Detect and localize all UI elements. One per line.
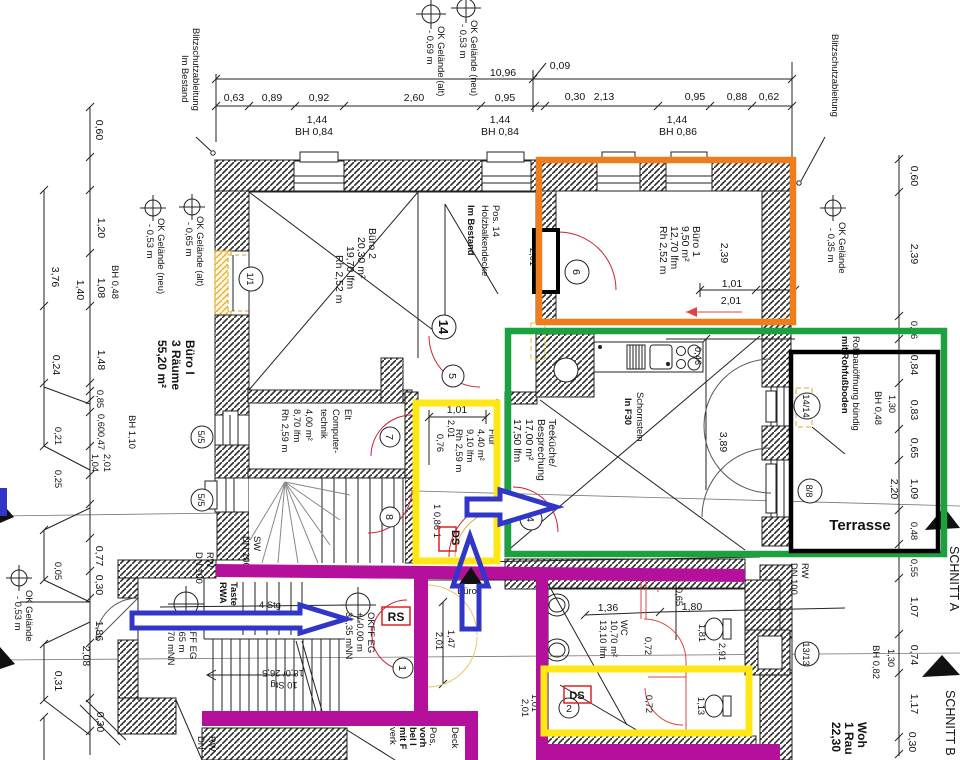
window left wall mid [215, 411, 249, 449]
section triangle right B [922, 655, 960, 677]
svg-text:0,48: 0,48 [909, 522, 920, 540]
DS red box rotated [439, 527, 461, 551]
svg-text:BH 1,10: BH 1,10 [127, 415, 138, 449]
door arc flur DS orange [455, 510, 500, 557]
svg-text:8,70 lfm: 8,70 lfm [292, 409, 303, 443]
svg-text:0,25: 0,25 [53, 470, 64, 488]
svg-text:0,62: 0,62 [759, 91, 780, 103]
blue arrow horizontal [132, 605, 346, 633]
door arc room8 [368, 490, 412, 533]
svg-text:technik: technik [319, 409, 330, 439]
leader blitz left [196, 137, 211, 151]
door dim line corridor [442, 602, 444, 684]
svg-text:2,01: 2,01 [102, 454, 113, 472]
svg-text:1,44: 1,44 [490, 114, 511, 126]
yellow window left wall [228, 255, 249, 311]
Buero2 diagonal 1 [249, 192, 433, 330]
svg-text:0,24: 0,24 [50, 355, 62, 376]
svg-text:8/8: 8/8 [804, 484, 815, 497]
circle 14 [432, 315, 456, 339]
svg-text:Deck: Deck [450, 727, 461, 749]
svg-text:Computer-: Computer- [331, 409, 342, 453]
svg-text:DN 100: DN 100 [241, 536, 252, 568]
OK symbol right [820, 195, 846, 221]
svg-text:0,31: 0,31 [52, 671, 64, 692]
svg-text:OKFF EG: OKFF EG [366, 612, 377, 653]
svg-text:2,39: 2,39 [718, 243, 730, 264]
inner wall line stairhall [417, 192, 419, 358]
svg-text:0,83: 0,83 [908, 400, 920, 421]
svg-text:BH 0,48: BH 0,48 [873, 391, 884, 425]
svg-text:Pos. 14: Pos. 14 [491, 205, 502, 237]
window W1 top wall [294, 152, 344, 191]
svg-text:Terrasse: Terrasse [829, 517, 890, 534]
magenta bottom bar [202, 711, 478, 726]
RS red box [382, 607, 410, 625]
svg-text:Blitzschutzableitung: Blitzschutzableitung [830, 34, 841, 117]
svg-text:1,07: 1,07 [908, 597, 920, 618]
WC sink 1 [545, 594, 569, 616]
wall stub chimney-west [505, 392, 537, 404]
yellow hatched window jamb left wall [215, 251, 231, 315]
circled 5/5 b [191, 489, 213, 511]
svg-text:In F30: In F30 [623, 398, 634, 425]
svg-text:2,60: 2,60 [404, 92, 425, 104]
dishwasher [627, 345, 645, 369]
window black buero1 [534, 230, 558, 292]
kitchen counter [594, 342, 703, 372]
svg-text:4 Stg: 4 Stg [259, 599, 281, 610]
red arrow buero1 [686, 307, 742, 317]
right exterior wall mid [762, 323, 791, 387]
svg-text:SCHNITT A: SCHNITT A [947, 546, 960, 612]
svg-text:OK Gelände (alt): OK Gelände (alt) [195, 216, 206, 286]
svg-text:14: 14 [436, 320, 451, 335]
door arc room7 [371, 415, 412, 456]
extension verticals top [215, 74, 217, 142]
svg-text:1,86: 1,86 [93, 621, 105, 642]
svg-text:2,01: 2,01 [721, 295, 742, 307]
svg-text:RW: RW [800, 563, 811, 579]
svg-text:1 Rau: 1 Rau [842, 722, 856, 755]
svg-text:0,30: 0,30 [94, 712, 106, 733]
Teekueche room inner outline [504, 404, 506, 553]
circled 5/5 a [191, 426, 213, 448]
magenta bottom bar right [541, 744, 780, 760]
4-stg stair treads [242, 582, 244, 635]
right exterior wall lower [760, 565, 792, 760]
circled 2 red [559, 698, 579, 718]
Teekueche diagonal 2 [506, 336, 760, 552]
entrance door opening [118, 598, 138, 640]
svg-text:RS: RS [388, 610, 405, 624]
door arc flur south [449, 503, 497, 557]
svg-text:OK Gelände: OK Gelände [837, 222, 848, 274]
svg-text:+/-0,00 m: +/-0,00 m [355, 612, 366, 652]
break lines bottom left [80, 705, 120, 745]
svg-text:SCHNITT B: SCHNITT B [943, 690, 957, 756]
OK symbol top 2 [451, 0, 481, 23]
svg-text:2,01: 2,01 [434, 632, 445, 650]
yellow rectangle wc [544, 669, 749, 733]
svg-text:1,36: 1,36 [598, 602, 619, 614]
svg-text:1,17: 1,17 [908, 694, 920, 715]
OK symbol left alt [179, 194, 205, 220]
pier WC east [745, 630, 790, 675]
toilet 1 [705, 618, 723, 640]
svg-text:Elt: Elt [343, 409, 354, 420]
terrace window 2 [766, 460, 791, 517]
door arcs corridor yellow [427, 585, 477, 635]
svg-text:2,01: 2,01 [520, 699, 531, 717]
svg-text:Büro I: Büro I [183, 340, 197, 375]
svg-text:2,01: 2,01 [446, 420, 457, 438]
svg-text:OK Gelände (alt): OK Gelände (alt) [436, 26, 447, 96]
Flur east wall thin [496, 399, 498, 557]
svg-text:- 0,65 m: - 0,65 m [184, 222, 195, 257]
toilet 2 [705, 695, 723, 717]
chimney block [536, 334, 594, 397]
svg-text:1,44: 1,44 [307, 114, 328, 126]
WC east wall [745, 580, 780, 675]
upper winder stair [249, 478, 405, 563]
svg-text:22,30: 22,30 [829, 722, 843, 752]
stair direction arrow [207, 670, 216, 680]
svg-text:0,47: 0,47 [96, 432, 107, 450]
svg-text:SW: SW [252, 536, 263, 551]
Teekueche west wall [405, 392, 418, 563]
svg-text:0,60: 0,60 [93, 120, 105, 141]
leader blitz right [801, 137, 825, 181]
svg-text:0,77: 0,77 [93, 546, 105, 567]
sink [650, 345, 672, 369]
svg-text:14/14: 14/14 [801, 394, 812, 417]
small yellow dashed marker kitchen [531, 323, 545, 359]
bottom-left wing left wall [118, 578, 138, 598]
black rectangle terrasse [791, 352, 938, 551]
svg-text:0,72: 0,72 [644, 695, 655, 713]
svg-text:verk: verk [388, 727, 399, 745]
OK symbol top 1 [416, 0, 446, 29]
Terrasse inner dim chain [898, 339, 900, 575]
svg-text:3,89: 3,89 [717, 432, 729, 453]
WC diagonals [547, 582, 627, 725]
blue fragment left edge [0, 488, 7, 516]
svg-text:8: 8 [383, 514, 395, 520]
top exterior wall [215, 160, 795, 191]
svg-text:RW: RW [207, 736, 218, 752]
circled 1/1 [239, 267, 263, 291]
svg-text:- 0,53 m: - 0,53 m [458, 24, 469, 59]
svg-text:BH 0,48: BH 0,48 [110, 265, 121, 299]
door arcs stair entry red [372, 600, 407, 635]
svg-text:0,09: 0,09 [550, 60, 571, 72]
bottom-left dim bits [20, 601, 90, 603]
svg-text:2,13: 2,13 [594, 91, 615, 103]
big stair [204, 638, 345, 640]
svg-text:mit Rohfußboden: mit Rohfußboden [840, 336, 851, 414]
svg-text:5: 5 [446, 373, 458, 379]
left dim chain outer [43, 190, 45, 446]
svg-text:Im Bestand: Im Bestand [466, 205, 477, 256]
svg-text:10,96: 10,96 [490, 67, 516, 79]
svg-text:10,70 m²: 10,70 m² [609, 620, 620, 657]
top chain dim line [216, 105, 792, 107]
svg-text:Schornstein: Schornstein [635, 392, 646, 442]
svg-text:1,13: 1,13 [696, 697, 707, 715]
wall bottom right of stair [415, 687, 427, 714]
left exterior wall mid [215, 315, 249, 415]
svg-text:BH 0,84: BH 0,84 [481, 126, 519, 138]
svg-text:BH 0,84: BH 0,84 [295, 126, 333, 138]
Terrasse leader [812, 427, 845, 454]
circled 1 red [393, 658, 413, 678]
svg-text:1,30: 1,30 [887, 395, 898, 413]
svg-text:1,81: 1,81 [697, 624, 708, 642]
svg-text:0,05: 0,05 [53, 562, 64, 580]
svg-text:7: 7 [383, 434, 395, 440]
opening left wall [205, 478, 249, 512]
circled 13/13 [795, 642, 819, 666]
svg-text:- 0,53 m: - 0,53 m [13, 596, 24, 631]
interior dim Flur top [429, 416, 486, 418]
svg-text:Rh 2,52 m: Rh 2,52 m [657, 226, 669, 275]
entrance door arc [96, 598, 138, 640]
svg-text:10 Stg: 10 Stg [270, 680, 297, 691]
OK symbol bottom left outer [6, 565, 32, 591]
left exterior wall upper [215, 191, 249, 251]
svg-text:0,60: 0,60 [96, 414, 107, 432]
svg-text:2,08: 2,08 [80, 646, 92, 667]
section triangle right A [925, 507, 960, 530]
svg-text:Im Bestand: Im Bestand [180, 55, 191, 102]
svg-text:2,20: 2,20 [888, 479, 900, 500]
circled 7 [380, 427, 400, 447]
svg-text:0,84: 0,84 [908, 355, 920, 376]
svg-text:1,08: 1,08 [95, 278, 107, 299]
interior dim Buero1 [700, 289, 795, 291]
corridor outline bottom [426, 580, 428, 687]
window lower right wall [756, 638, 792, 670]
window W3 top wall [597, 152, 640, 191]
svg-text:0,92: 0,92 [309, 92, 330, 104]
left exterior wall lower [217, 512, 249, 560]
yellow rectangle flur [416, 403, 497, 561]
leader Pos14 [444, 204, 446, 315]
svg-text:0,95: 0,95 [685, 91, 706, 103]
svg-text:Rh 2,52 m: Rh 2,52 m [333, 255, 345, 304]
bottom-left wing top wall [118, 560, 216, 578]
circled 5 [442, 365, 464, 387]
svg-text:0,88: 0,88 [727, 91, 748, 103]
svg-text:1,44: 1,44 [667, 114, 688, 126]
svg-text:17,50 lfm: 17,50 lfm [511, 419, 523, 462]
blue arrow right [467, 490, 556, 524]
svg-text:1,80: 1,80 [682, 601, 703, 613]
svg-text:RW: RW [205, 552, 216, 568]
svg-text:BH 0,82: BH 0,82 [871, 645, 882, 679]
stair break line [296, 641, 316, 711]
svg-text:1,20: 1,20 [95, 218, 107, 239]
svg-text:Rh 2,59 m: Rh 2,59 m [280, 409, 291, 452]
WC sink 2 [545, 639, 569, 661]
svg-text:0,30: 0,30 [906, 732, 918, 753]
section line A [0, 511, 380, 516]
svg-text:Woh: Woh [855, 722, 869, 748]
bottom-left wing corner wall [118, 698, 176, 734]
right exterior wall upper (in orange) [762, 191, 795, 323]
OK symbol left neu [140, 195, 166, 221]
svg-text:1,40: 1,40 [74, 280, 86, 301]
svg-text:1,04: 1,04 [90, 454, 101, 472]
circled 4 [520, 508, 542, 530]
svg-text:RWA: RWA [218, 582, 229, 604]
WC north wall [505, 559, 745, 589]
svg-text:Taste: Taste [229, 582, 240, 606]
svg-text:4,40 m²: 4,40 m² [476, 429, 487, 461]
svg-text:DN: DN [196, 736, 207, 750]
svg-text:- 0,53 m: - 0,53 m [145, 224, 156, 259]
left outer chain lower [43, 530, 45, 580]
svg-text:Blitzschutzableitung: Blitzschutzableitung [191, 28, 202, 111]
svg-text:1: 1 [396, 665, 408, 671]
svg-text:1 0,86 1: 1 0,86 1 [432, 504, 443, 538]
svg-text:5/5: 5/5 [196, 430, 207, 443]
magenta vertical corner bottom [465, 711, 478, 760]
svg-text:2: 2 [566, 703, 572, 715]
svg-text:0,74: 0,74 [908, 645, 920, 666]
WC room outline [548, 587, 745, 589]
wall bottom below WC [541, 736, 756, 760]
WC red partition lines [641, 581, 686, 736]
Teekueche diagonal 1 [540, 400, 745, 550]
svg-text:55,20 m²: 55,20 m² [155, 340, 169, 388]
svg-text:0,21: 0,21 [53, 427, 64, 445]
svg-text:0,65: 0,65 [908, 438, 920, 459]
svg-text:BH 0,86: BH 0,86 [659, 126, 697, 138]
green rectangle [508, 331, 944, 554]
svg-text:2,39: 2,39 [908, 244, 920, 265]
svg-text:0,60: 0,60 [908, 166, 920, 187]
svg-text:9,10 lfm: 9,10 lfm [465, 429, 476, 463]
svg-text:13,10 lfm: 13,10 lfm [598, 620, 609, 659]
section triangle left B [0, 647, 15, 669]
svg-text:OK Gelände (neu): OK Gelände (neu) [469, 20, 480, 96]
DS red box wc [564, 686, 591, 703]
svg-text:0,76: 0,76 [435, 434, 446, 452]
svg-text:0,95: 0,95 [495, 92, 516, 104]
pier Buero2 [381, 358, 403, 403]
svg-text:DN 100: DN 100 [194, 552, 205, 584]
svg-text:5/5: 5/5 [196, 493, 207, 506]
svg-text:0,30: 0,30 [565, 91, 586, 103]
svg-text:0,46: 0,46 [693, 347, 704, 365]
svg-text:1,01: 1,01 [722, 278, 743, 290]
magenta vertical WC west [536, 579, 548, 760]
magenta duct bar horizontal [216, 564, 745, 582]
OK symbol stair 2 [340, 587, 376, 623]
Buero1 west wall [536, 191, 556, 323]
WC interior dims [585, 612, 660, 615]
window W4 top wall [666, 152, 712, 191]
OK symbol stair 1 [168, 586, 204, 622]
blue arrow up black triangle [459, 567, 482, 584]
wall below big stair [202, 728, 347, 760]
svg-text:0,63: 0,63 [224, 92, 245, 104]
circled 8/8 [798, 479, 822, 503]
svg-text:OK Gelände: OK Gelände [24, 590, 35, 642]
terrace window 1 [766, 387, 791, 426]
svg-text:3,76: 3,76 [49, 267, 61, 288]
svg-text:13/13: 13/13 [801, 642, 812, 665]
svg-text:OK Gelände (neu): OK Gelände (neu) [156, 218, 167, 294]
svg-text:- 0,35 m: - 0,35 m [826, 228, 837, 263]
door arc b2 to hall [429, 336, 480, 387]
interior vertical line kitchen dim [705, 339, 707, 490]
svg-text:2,91: 2,91 [717, 643, 728, 661]
svg-text:1,30: 1,30 [886, 649, 897, 667]
svg-text:1,09: 1,09 [908, 479, 920, 500]
svg-text:- 0,69 m: - 0,69 m [425, 30, 436, 65]
orange dashed opening marker [796, 388, 812, 427]
circled 6 [565, 260, 589, 284]
circled 14/14 [794, 393, 820, 419]
circled 8 [380, 507, 400, 527]
svg-text:0,85: 0,85 [95, 390, 106, 408]
door arc buero6 [558, 232, 616, 290]
left dim chain main [89, 107, 91, 755]
section triangle left A [0, 501, 14, 523]
cooktop burners [677, 347, 686, 356]
svg-text:1,47: 1,47 [446, 630, 457, 648]
svg-text:Holzbalkendecke: Holzbalkendecke [480, 205, 491, 276]
room outline Buero2/stairhall inner edges [249, 191, 536, 193]
magenta vertical left [414, 566, 428, 713]
right dim chain [898, 155, 900, 756]
Buero2 south wall [248, 390, 412, 403]
svg-text:4,00 m²: 4,00 m² [304, 409, 315, 441]
svg-text:DN 100: DN 100 [789, 563, 800, 595]
svg-text:1/1: 1/1 [245, 272, 256, 285]
section line B [0, 653, 960, 660]
orange rectangle [539, 160, 793, 322]
svg-text:0,89: 0,89 [262, 92, 283, 104]
svg-text:Besprechung: Besprechung [535, 419, 547, 481]
svg-text:6: 6 [570, 269, 582, 275]
svg-text:0,55: 0,55 [909, 559, 920, 577]
window W2 top wall [482, 152, 531, 191]
svg-text:DS: DS [449, 530, 461, 545]
door arc room4 [513, 487, 558, 532]
terrace door arcs [704, 359, 771, 426]
svg-text:0,72: 0,72 [643, 637, 654, 655]
svg-text:DS: DS [569, 690, 584, 702]
blue arrow up [453, 536, 488, 629]
left exterior wall below window [215, 445, 249, 478]
Buero2 diagonal 2 [249, 192, 418, 390]
Elt south wall [248, 469, 412, 478]
svg-text:1,48: 1,48 [95, 350, 107, 371]
svg-text:3 Räume: 3 Räume [169, 340, 183, 390]
svg-text:17,00 m²: 17,00 m² [523, 419, 535, 461]
top total dim line [216, 78, 792, 80]
svg-text:0,30: 0,30 [93, 575, 105, 596]
svg-text:18,0/ 26,5: 18,0/ 26,5 [262, 668, 304, 679]
